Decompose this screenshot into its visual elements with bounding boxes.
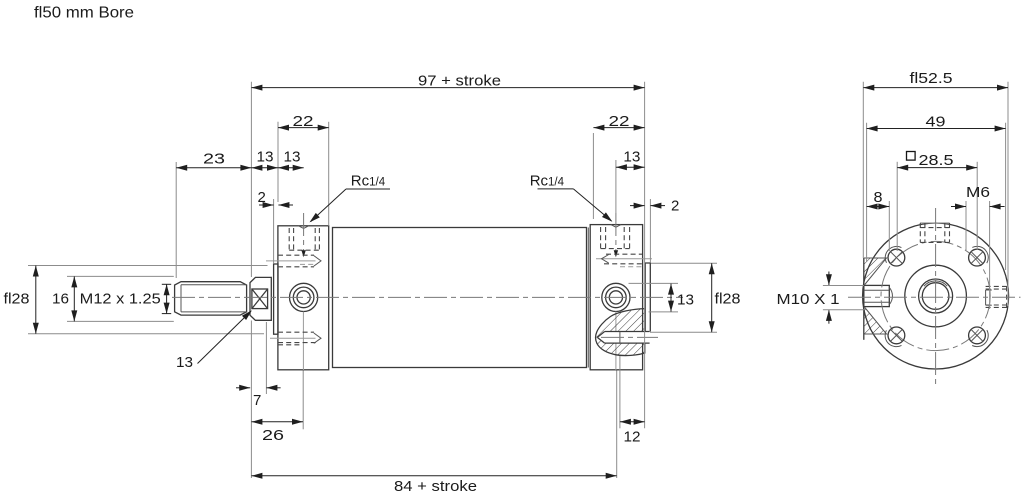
end view rod bushing circle: [919, 279, 953, 313]
end view outer circle: [863, 223, 1009, 369]
piston rod thread chamfer line: [180, 285, 182, 312]
rod-side port thread circle: [293, 287, 314, 308]
dimension 12: [620, 419, 645, 446]
svg-text:26: 26: [262, 427, 284, 444]
rod-side port hole circle: [297, 291, 310, 304]
svg-text:2: 2: [671, 198, 679, 215]
extension line cover face (x=278): [277, 122, 279, 202]
dimension fl28 right: [709, 263, 741, 332]
dimension 97 + stroke: [251, 72, 644, 90]
head-side cushion section outline: [596, 309, 645, 356]
end view lower hatch boundary: [864, 308, 887, 335]
extension line rod end face (x=251.4): [250, 82, 252, 478]
extension line fl28R bottom (y=332.2): [650, 331, 717, 333]
extension line fl52.5 right (x=1008): [1007, 82, 1009, 287]
dimension 49: [867, 113, 1006, 131]
tube right end seam line: [587, 228, 589, 368]
mounting screw hole top-right: [969, 246, 989, 266]
rod-side cushion top passage: [266, 255, 321, 267]
extension line rod thread start (x=176.2): [175, 162, 177, 278]
end view upper hatch boundary: [864, 258, 887, 285]
head-side port seat notch: [611, 225, 621, 228]
extension line 16 top (y=276.4): [67, 275, 174, 277]
head-side port thread circle: [606, 287, 627, 308]
end view bolt circle: [881, 241, 990, 350]
rod nut cross line 2: [252, 289, 268, 309]
dimension 23: [176, 151, 251, 171]
rod nut center square: [252, 289, 268, 309]
svg-text:2: 2: [258, 189, 266, 206]
extension line plate left (x=273.6): [273, 199, 275, 264]
dimension 13 first: [251, 149, 278, 171]
mounting screw hole top-left: [885, 246, 905, 266]
dimension fl28 left: [4, 266, 39, 334]
extension line head cover left (x=593.4): [592, 133, 594, 219]
end view top port flat: [920, 222, 950, 224]
rod-side face plate: [274, 264, 278, 334]
svg-text:M12 x 1.25: M12 x 1.25: [80, 290, 161, 307]
dimension 13 right top: [616, 149, 645, 171]
extension line 7 right (x=266.4): [265, 322, 267, 394]
end view right port hidden lines: [986, 286, 1008, 307]
dimension fl52.5: [863, 70, 1008, 91]
svg-text:13: 13: [677, 291, 694, 308]
svg-text:fl52.5: fl52.5: [910, 70, 953, 87]
piston rod thread M12 outline: [175, 282, 247, 315]
dimension 22 left: [278, 113, 329, 130]
end view horizontal centerline: [848, 296, 1021, 298]
rod nut cross line 1: [252, 289, 268, 309]
rod-side cushion bottom passage: [270, 332, 321, 345]
svg-text:M6: M6: [966, 184, 990, 201]
head-side cover block: [590, 225, 642, 370]
extension line cover right outer (x=644.6): [644, 82, 646, 429]
extension line 12 left (x=619.9): [619, 356, 621, 428]
svg-text:12: 12: [624, 429, 641, 446]
rod-side port boss circle: [290, 283, 318, 311]
extension line M6 right (x=989.6): [989, 201, 991, 309]
end view lower hatch wedge: [864, 307, 887, 334]
extension line 13R bottom (y=311.9): [649, 311, 679, 313]
main axis centerline: [172, 296, 683, 298]
dimension 22 right: [593, 113, 644, 130]
extension line 28.5 right (x=977.2): [976, 162, 978, 250]
rod-side port seat notch: [299, 226, 309, 229]
svg-text:M10 X 1: M10 X 1: [777, 291, 840, 308]
dimension 16: [52, 276, 77, 321]
head-side port hole circle: [609, 291, 622, 304]
dimension 13 right vertical: [668, 284, 694, 312]
extension line 8 right (x=889.3): [888, 201, 890, 251]
dimension M12 x 1.25 ticks: [80, 284, 172, 313]
svg-text:13: 13: [176, 354, 193, 371]
svg-text:49: 49: [926, 113, 946, 130]
svg-text:22: 22: [609, 113, 630, 130]
end view left boss edge: [863, 258, 865, 340]
M10 port thread lines: [864, 290, 890, 302]
M10 port outline: [864, 285, 890, 306]
extension line fl28L bottom (y=333.7): [28, 333, 264, 335]
svg-text:fl28: fl28: [715, 290, 741, 307]
svg-text:8: 8: [874, 189, 883, 206]
dimension M10 X 1: [777, 272, 865, 324]
extension line head port center above (x=615.9): [615, 160, 617, 213]
dimension 2 right arrows: [630, 198, 679, 215]
cushion needle slot bottom edge: [605, 342, 650, 344]
cushion needle cone bottom: [597, 337, 604, 343]
svg-text:13: 13: [257, 149, 274, 166]
extension line M6 left (x=966): [965, 201, 967, 250]
dimension 13 second: [278, 149, 304, 171]
head-side cushion section hatched blob: [596, 309, 645, 356]
extension line fl28L top (y=265.5): [28, 265, 268, 267]
end view rod chamfer arc: [924, 281, 947, 286]
extension line 49 left (x=866.6): [866, 123, 868, 262]
mounting screw hole bottom-right: [969, 327, 989, 347]
extension line 84 right (x=616.7): [616, 371, 618, 479]
svg-text:13: 13: [284, 149, 301, 166]
rod-side port centerline: [301, 213, 305, 370]
cushion needle slot white: [597, 332, 649, 344]
rod-side cover block: [278, 226, 329, 370]
dimension 7 arrows: [236, 385, 281, 409]
svg-text:84 + stroke: 84 + stroke: [394, 478, 477, 495]
end view boss circle: [905, 265, 967, 327]
extension line port center below (x=303.2): [302, 371, 304, 430]
head-side port boss circle: [602, 283, 630, 311]
dimension M6 arrows: [951, 184, 1005, 210]
head-side port centerline: [614, 213, 618, 370]
cushion needle slot top edge: [605, 331, 650, 333]
label Rc1/4 right with leader: [530, 172, 613, 222]
dimension 84 + stroke: [251, 473, 616, 495]
svg-text:fl50 mm Bore: fl50 mm Bore: [34, 5, 134, 22]
extension line 49 right (x=1005.6): [1005, 123, 1007, 270]
dimension 8: [867, 189, 890, 210]
svg-text:97 + stroke: 97 + stroke: [418, 72, 501, 89]
end view top port hidden lines: [920, 223, 949, 242]
piston rod thread minor dia bottom: [181, 311, 247, 313]
extension line 28.5 left (x=897.2): [896, 162, 898, 251]
piston rod thread minor dia top: [181, 284, 247, 286]
cushion needle cone top: [597, 332, 604, 338]
svg-text:23: 23: [203, 151, 225, 168]
label Rc1/4 left with leader: [310, 172, 391, 222]
svg-text:28.5: 28.5: [919, 152, 954, 169]
rod-side top port hidden thread: [289, 228, 319, 250]
M10 port tip arc: [889, 288, 892, 305]
svg-text:fl28: fl28: [4, 290, 30, 307]
svg-text:16: 16: [52, 290, 69, 307]
cushion needle step: [619, 332, 621, 344]
cushion needle axis centerline: [601, 336, 658, 338]
svg-text:7: 7: [253, 392, 261, 409]
head-side face plate: [645, 263, 650, 332]
end view rod hole circle: [922, 283, 949, 310]
extension line 16 bottom (y=321.4): [67, 320, 174, 322]
extension line 13R top (y=283.4): [629, 282, 679, 284]
dimension 26: [251, 419, 303, 444]
extension line head plate right (x=650.4): [649, 199, 651, 263]
head-side top port hidden thread: [601, 227, 630, 249]
end view right port solid bracket: [986, 290, 992, 305]
end view vertical centerline: [935, 208, 937, 385]
extension line fl52.5 left (x=863.3): [862, 82, 864, 258]
end view upper hatch wedge: [864, 258, 887, 285]
label 13 nut leader: [176, 310, 252, 371]
extension line fl28R top (y=263.2): [651, 262, 717, 264]
extension line tube start (x=328.7): [328, 122, 330, 226]
rod nut outline: [250, 277, 271, 320]
cylinder tube body: [333, 228, 587, 368]
mounting screw hole bottom-left: [885, 327, 905, 347]
dimension square 28.5: [897, 152, 977, 171]
svg-text:13: 13: [623, 149, 640, 166]
end view right flat: [1007, 287, 1009, 306]
svg-text:22: 22: [293, 113, 314, 130]
head-side cushion top passage: [596, 254, 652, 267]
dimension 2 left arrows: [258, 189, 294, 208]
